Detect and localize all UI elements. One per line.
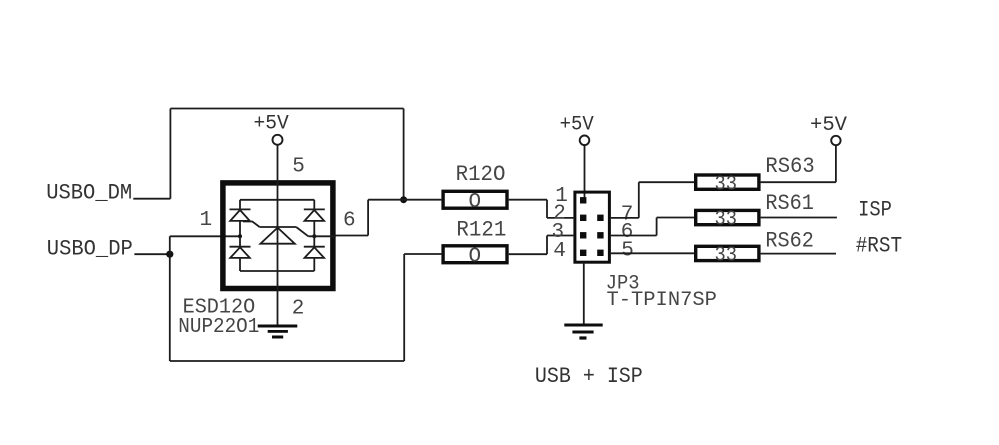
svg-text:O: O <box>469 246 482 269</box>
svg-text:6: 6 <box>343 209 356 232</box>
resistor RS63 <box>696 175 759 189</box>
wire pin7 riser <box>638 182 640 218</box>
diode D3 cathode bar <box>304 208 325 210</box>
junction right rail <box>312 234 316 238</box>
JP3 pin square 2 <box>580 215 586 221</box>
diode D3 anode lead <box>313 221 315 236</box>
svg-text:ISP: ISP <box>858 197 892 222</box>
svg-text:+5V: +5V <box>254 113 289 136</box>
svg-text:+5V: +5V <box>560 114 594 137</box>
wire pin5 center vertical <box>277 145 279 325</box>
svg-text:USBO_DM: USBO_DM <box>46 181 132 206</box>
wire bend up pin3 <box>546 236 548 255</box>
svg-text:33: 33 <box>715 245 738 268</box>
wire R121 to bend <box>509 253 547 255</box>
wire RS61 to ISP <box>761 217 837 219</box>
svg-text:R121: R121 <box>456 218 506 243</box>
resistor R121 <box>443 246 507 263</box>
svg-text:RS62: RS62 <box>765 228 814 253</box>
diode D4 triangle <box>305 247 325 258</box>
ground JP3 bar3 <box>579 336 586 339</box>
ground chip bar2 <box>268 330 288 333</box>
wire RS63 to +5V <box>761 181 836 183</box>
diode D4 cathode bar <box>304 246 325 248</box>
wire node to R120 <box>404 199 442 201</box>
JP3 pin square 4 <box>580 250 586 256</box>
wire USB0_DM stub <box>133 198 170 200</box>
svg-text:4: 4 <box>553 240 566 263</box>
diode D4 lower-right cathode lead <box>313 236 315 246</box>
zener TVS cathode bar <box>260 226 297 228</box>
wire into JP3 pin2 <box>547 217 573 219</box>
wire DM drop to node <box>403 109 405 200</box>
wire JP3 pin6 out <box>611 235 657 237</box>
wire to RS61 <box>657 217 694 219</box>
chip pin6 inner rail <box>308 235 335 237</box>
wire +5V right drop <box>835 145 837 182</box>
wire RS62 to #RST <box>761 253 836 255</box>
svg-text:5: 5 <box>292 156 305 179</box>
wire into JP3 pin3 <box>547 235 573 237</box>
chip inner top rail <box>240 199 314 201</box>
JP3 pin square 3 <box>580 232 586 238</box>
ground chip bar1 <box>258 325 298 328</box>
JP3 pin square 6 <box>597 232 603 238</box>
wire R120 to bend <box>509 199 547 201</box>
resistor R120 <box>443 191 507 208</box>
diode D3 upper-right lead <box>313 200 315 210</box>
svg-text:5: 5 <box>621 240 634 263</box>
diode D2 lower-left cathode lead <box>239 236 241 246</box>
wire pin6 riser <box>656 218 658 236</box>
connector JP3 outline <box>575 192 610 262</box>
junction node DM <box>400 196 407 203</box>
ground JP3 bar2 <box>572 331 593 334</box>
ground JP3 bar1 <box>564 324 602 327</box>
wire DP riser to R121 <box>403 254 405 361</box>
resistor RS62 <box>696 246 759 260</box>
resistor RS61 <box>696 210 759 224</box>
wire into chip pin 1 <box>170 235 240 237</box>
wire node to pin6 horizontal <box>368 199 404 201</box>
wire USB0_DP stub <box>134 253 169 255</box>
wire to RS63 <box>639 181 694 183</box>
power +5V JP3 circle <box>580 136 590 146</box>
diode D2 anode lead <box>239 258 241 271</box>
diode D1 upper-left lead <box>239 200 241 210</box>
diode D1 cathode bar <box>230 208 251 210</box>
svg-text:RS63: RS63 <box>765 154 814 179</box>
svg-text:USB + ISP: USB + ISP <box>535 364 643 389</box>
diode D1 triangle <box>230 210 250 221</box>
svg-text:33: 33 <box>715 173 738 196</box>
wire JP3 pin7 out <box>611 217 639 219</box>
svg-text:#RST: #RST <box>856 233 902 258</box>
chip inner bottom rail <box>240 270 314 272</box>
junction left rail <box>238 234 242 238</box>
power +5V chip circle <box>273 135 283 145</box>
JP3 pin square 5 <box>597 250 603 256</box>
svg-text:1: 1 <box>200 209 213 232</box>
ground chip bar3 <box>272 336 283 339</box>
svg-text:NUP22O1: NUP22O1 <box>178 316 259 339</box>
diode D3 triangle <box>305 210 325 221</box>
wire USB0_DM riser <box>169 109 171 199</box>
wire top rail DM <box>170 108 403 110</box>
wire DP drop <box>169 254 171 361</box>
svg-text:O: O <box>469 191 482 214</box>
wire pin6 drop <box>367 200 369 236</box>
wire into chip pin 6 <box>335 235 368 237</box>
diode D2 cathode bar <box>230 246 251 248</box>
wire to R121 left <box>404 253 441 255</box>
svg-text:2: 2 <box>292 298 305 321</box>
wire DP bottom run <box>170 360 404 362</box>
svg-text:R12O: R12O <box>456 162 506 187</box>
JP3 pin square 1 <box>580 197 586 203</box>
svg-text:+5V: +5V <box>810 114 847 137</box>
svg-text:RS61: RS61 <box>765 191 814 216</box>
zener TVS right hook <box>296 227 308 236</box>
JP3 pin square 7 <box>597 215 603 221</box>
zener TVS triangle <box>260 228 294 244</box>
wire JP3 ground lead <box>583 262 585 324</box>
wire bend down pin2 <box>546 200 548 218</box>
svg-text:33: 33 <box>715 209 738 232</box>
wire JP3 pin5 to RS62 <box>611 252 694 254</box>
diode D1 anode lead <box>239 221 241 236</box>
junction node DP <box>166 251 173 258</box>
svg-text:USBO_DP: USBO_DP <box>47 237 133 262</box>
diode D2 triangle <box>230 247 250 258</box>
wire DP riser to pin1 <box>169 236 171 254</box>
svg-text:T-TPIN7SP: T-TPIN7SP <box>607 289 717 312</box>
ESD chip U outline <box>223 183 333 289</box>
zener TVS left hook <box>243 222 260 228</box>
diode D4 anode lead <box>313 258 315 271</box>
wire +5V to JP3 pin1 <box>584 145 586 198</box>
power +5V right circle <box>831 136 840 145</box>
